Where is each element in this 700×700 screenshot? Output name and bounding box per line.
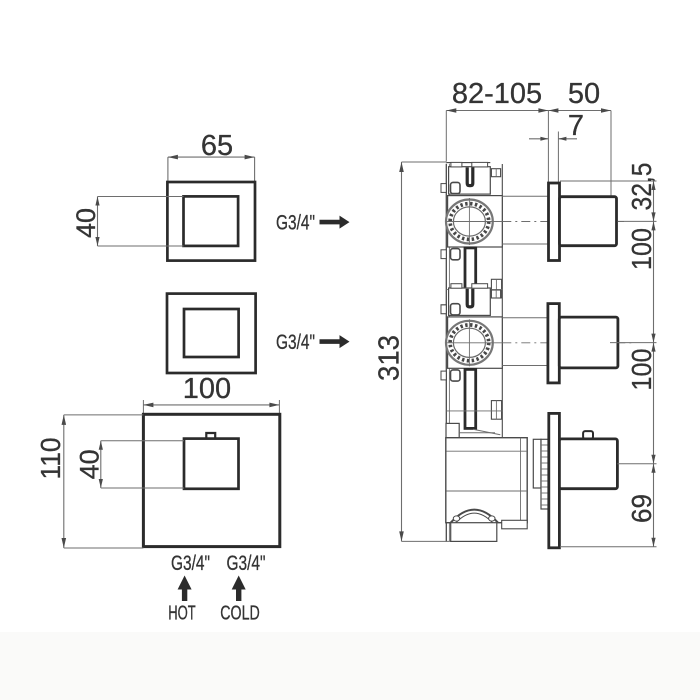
unit3 inner line 1 bbox=[446, 450, 527, 452]
svg-text:HOT: HOT bbox=[168, 603, 196, 625]
rail joint line 1 bbox=[446, 289, 502, 291]
unit1 dashed centerline bbox=[502, 221, 624, 223]
svg-text:82-105: 82-105 bbox=[452, 78, 542, 110]
svg-text:32,5: 32,5 bbox=[626, 163, 657, 211]
plate B outer square bbox=[167, 294, 256, 373]
svg-text:313: 313 bbox=[374, 335, 406, 381]
svg-text:100: 100 bbox=[626, 228, 657, 270]
plate A inner square bbox=[184, 196, 239, 246]
unit3 inner vline bbox=[520, 438, 522, 523]
pipe 2-3 bbox=[465, 369, 476, 428]
unit1 mounting bracket bbox=[449, 162, 501, 194]
svg-text:G3/4": G3/4" bbox=[227, 552, 266, 575]
unit2 dashed centerline bbox=[502, 342, 633, 344]
unit1 valve block and cartridge circle bbox=[446, 196, 502, 247]
svg-text:40: 40 bbox=[71, 208, 101, 238]
unit3 dome pivot left bbox=[453, 516, 459, 521]
unit2 valve block and cartridge circle bbox=[446, 317, 502, 368]
svg-text:69: 69 bbox=[626, 494, 657, 523]
unit3 bottom box bbox=[451, 523, 497, 542]
dimension 65 (plate A width) bbox=[168, 130, 255, 181]
handle 3 top tab bbox=[583, 431, 593, 439]
svg-text:COLD: COLD bbox=[220, 603, 260, 625]
svg-text:110: 110 bbox=[35, 438, 66, 480]
plate C inner square bbox=[184, 439, 239, 489]
cold inlet up-arrow bbox=[232, 576, 246, 602]
clip pair 1a bbox=[441, 249, 460, 260]
plate A outer square bbox=[167, 182, 255, 261]
unit2 left clip bbox=[441, 304, 460, 315]
svg-text:7: 7 bbox=[568, 110, 584, 142]
unit3 right foot bbox=[502, 520, 528, 529]
wall plate 1 bbox=[549, 183, 560, 261]
unit3 neck left block bbox=[446, 423, 459, 440]
svg-text:65: 65 bbox=[201, 130, 233, 162]
pipe 1-2 bbox=[465, 248, 476, 309]
label G3/4 inlet arrow 2 bbox=[276, 331, 350, 354]
unit3 serrated connector B bbox=[541, 439, 549, 509]
rail joint line 2 bbox=[446, 410, 502, 412]
svg-text:50: 50 bbox=[568, 78, 600, 110]
rail bracket right 1 bbox=[491, 279, 501, 298]
plate B inner square bbox=[184, 309, 239, 357]
svg-text:G3/4": G3/4" bbox=[276, 331, 315, 354]
dimension 7 bbox=[529, 110, 584, 183]
handle 3 bbox=[559, 439, 617, 489]
dimension 82-105 and 50 bbox=[446, 78, 611, 196]
svg-text:G3/4": G3/4" bbox=[171, 552, 210, 575]
unit3 main block bbox=[446, 438, 527, 523]
svg-text:100: 100 bbox=[626, 349, 657, 391]
dimension 40 (plate C inner) bbox=[75, 441, 185, 488]
unit3 dome cap bbox=[451, 510, 498, 523]
label G3/4 inlet arrow 1 bbox=[276, 212, 350, 235]
hot inlet up-arrow bbox=[178, 576, 192, 602]
plate C knob tab bbox=[206, 433, 215, 438]
wall plate 3 bbox=[549, 413, 560, 547]
dimension 100 (plate C width) bbox=[143, 373, 279, 415]
faint page band at bottom bbox=[0, 632, 700, 700]
rail bracket right 2 bbox=[491, 401, 501, 420]
clip pair 1b bbox=[441, 304, 460, 315]
unit3 serrated connector A bbox=[533, 439, 541, 488]
unit3 inner line 2 bbox=[446, 490, 527, 492]
unit3 dome pivot right bbox=[489, 516, 495, 521]
unit2 connector lines to wall plate bbox=[502, 318, 548, 366]
unit1 connector lines to wall plate bbox=[502, 196, 548, 244]
unit3 dome inner bbox=[456, 513, 493, 523]
right dimension chain line bbox=[560, 181, 657, 547]
svg-text:G3/4": G3/4" bbox=[276, 212, 315, 235]
plate C outer square bbox=[143, 414, 279, 546]
unit3 neck band bbox=[459, 429, 500, 435]
unit2 mounting bracket bbox=[449, 284, 501, 316]
clip pair 2a bbox=[441, 370, 460, 381]
handle 2 bbox=[559, 317, 618, 368]
handle 1 bbox=[560, 197, 617, 246]
dimension 40 (plate A inner) bbox=[71, 197, 184, 247]
mounting rail bbox=[446, 163, 502, 542]
wall plate 2 bbox=[548, 304, 559, 383]
svg-text:100: 100 bbox=[183, 373, 231, 405]
dimension 110 (plate C height) bbox=[35, 415, 143, 548]
svg-text:40: 40 bbox=[75, 449, 105, 479]
unit1 left clip bbox=[441, 182, 460, 193]
dimension 313 overall height bbox=[374, 162, 453, 541]
